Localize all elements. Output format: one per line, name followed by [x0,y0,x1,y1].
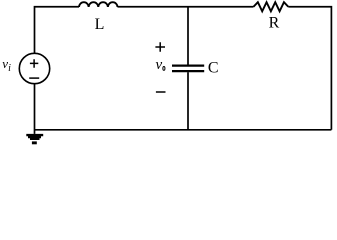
capacitor C plates [172,64,204,66]
plus sign at capacitor (vo polarity) [155,42,165,51]
wire: bottom rail [35,129,332,131]
voltage source vi circle [19,53,49,83]
minus sign inside source [29,77,39,79]
label vo subscript 0 [163,66,165,70]
svg-text:vi: vi [2,56,11,74]
wire: capacitor bottom plate to bottom rail [187,72,189,130]
wire: left vertical from source top to top rail, then top rail to inductor [35,7,80,54]
wire: top rail from inductor to resistor [118,6,254,8]
ground [26,134,43,144]
wire: top rail from resistor to top-right corner, right vertical down [288,7,331,130]
svg-text:v: v [156,57,163,73]
minus sign at capacitor (vo polarity) [156,91,166,93]
inductor L [79,2,118,7]
wire: source bottom to bottom rail and ground stub [34,84,36,134]
wire: middle vertical, top rail to capacitor top plate [187,7,189,65]
svg-text:R: R [269,15,280,32]
resistor R [254,2,289,11]
plus sign inside source [30,59,38,67]
svg-text:C: C [208,60,219,77]
svg-text:L: L [95,16,105,33]
